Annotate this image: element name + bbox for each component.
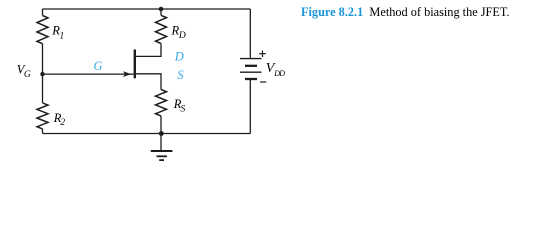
- node VG junction dot: [40, 72, 44, 76]
- transistor Q1 gate arrowhead: [123, 71, 131, 77]
- svg-text:D: D: [178, 31, 186, 41]
- wire middle drain branch lead: [160, 9, 162, 15]
- svg-text:DD: DD: [273, 69, 285, 78]
- node source-bottom junction dot: [159, 131, 164, 136]
- wire gate from VG node: [43, 73, 134, 75]
- wire right rail upper: [249, 9, 251, 58]
- svg-text:S: S: [177, 68, 184, 82]
- battery minus sign: [260, 81, 266, 83]
- wire ground stub: [160, 134, 162, 151]
- svg-text:G: G: [94, 59, 103, 73]
- label VDD: [266, 61, 285, 78]
- svg-text:D: D: [174, 49, 184, 63]
- svg-text:G: G: [24, 70, 31, 80]
- label R2: [53, 111, 66, 128]
- wire left rail lower lead: [42, 129, 44, 134]
- svg-text:1: 1: [60, 32, 65, 42]
- wire RS to bottom rail: [160, 116, 162, 134]
- wire top rail: [43, 8, 251, 10]
- wire right rail lower: [249, 80, 251, 134]
- label RD: [171, 24, 186, 42]
- wire source corner to RS: [136, 74, 161, 90]
- wire RD to drain corner: [136, 44, 161, 57]
- node drain-top junction dot: [159, 7, 164, 12]
- caption: Figure 8.2.1 Method of biasing the JFET.: [301, 5, 510, 20]
- wire left rail mid: [42, 44, 44, 103]
- svg-text:S: S: [181, 104, 186, 114]
- resistor R1: [37, 16, 48, 44]
- svg-text:2: 2: [60, 118, 65, 128]
- resistor RS: [156, 90, 167, 116]
- ground: [151, 151, 173, 160]
- battery plus sign: [259, 50, 266, 57]
- wire bottom rail: [43, 133, 251, 135]
- wire left rail upper lead: [42, 9, 44, 16]
- label R1: [51, 24, 64, 42]
- label RS: [173, 97, 186, 114]
- battery VDD: [240, 59, 262, 79]
- resistor RD: [156, 15, 167, 43]
- label VG node: [17, 62, 31, 80]
- resistor R2: [37, 103, 48, 129]
- transistor Q1 JFET channel bar: [134, 50, 136, 79]
